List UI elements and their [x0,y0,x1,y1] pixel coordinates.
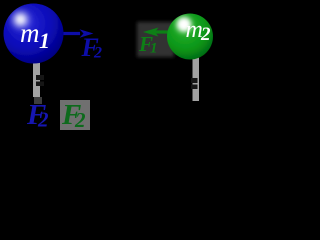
svg-text:2: 2 [93,45,102,62]
svg-text:m: m [20,18,40,48]
svg-text:2: 2 [200,24,211,45]
svg-text:2: 2 [37,108,49,132]
svg-text:1: 1 [39,28,50,53]
svg-text:1: 1 [150,41,158,57]
svg-text:2: 2 [74,108,86,132]
